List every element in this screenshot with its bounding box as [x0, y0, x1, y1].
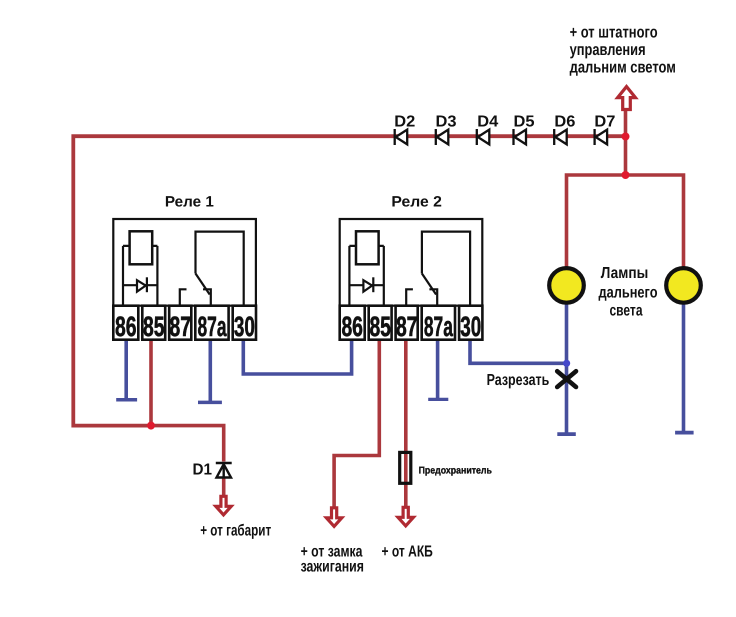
wire: blue relay1 pin 86 to ground [124, 340, 128, 399]
wire: blue relay1 pin 87a to ground [209, 340, 213, 402]
wire: blue right lamp to ground [682, 304, 686, 431]
wire: red branch to D1 [151, 426, 224, 462]
relay K1 [113, 219, 256, 340]
svg-text:+ от штатного: + от штатного [570, 24, 658, 42]
fuse F1 [400, 452, 411, 483]
wire: red from relay1 pin 85 down to junction [149, 340, 153, 426]
arrow down battery [398, 507, 413, 526]
svg-text:85: 85 [143, 311, 165, 342]
svg-text:86: 86 [115, 311, 137, 342]
svg-text:Реле 1: Реле 1 [165, 193, 214, 210]
wire: red riser to stock control arrow [624, 110, 628, 175]
diode D5 [514, 129, 527, 145]
wire: red from relay2 pin 85 to ignition arrow [334, 340, 379, 507]
node: red junction lamp feed [622, 171, 630, 179]
svg-text:87: 87 [170, 311, 192, 342]
svg-text:D6: D6 [554, 113, 575, 130]
ground bar relay1 pin87a [198, 401, 222, 405]
svg-text:87: 87 [396, 311, 418, 342]
lamp left [549, 268, 584, 303]
svg-text:Предохранитель: Предохранитель [419, 465, 492, 476]
diode D7 [595, 129, 608, 145]
svg-text:30: 30 [234, 311, 255, 342]
svg-text:D5: D5 [514, 113, 535, 130]
svg-text:управления: управления [570, 41, 646, 59]
arrow down ignition [326, 508, 341, 527]
ground bar left lamp [557, 432, 576, 436]
diode D4 [477, 129, 490, 145]
pin labels relay1 [115, 311, 481, 342]
svg-text:Реле 2: Реле 2 [391, 193, 442, 210]
wire: blue left lamp to ground through cut point [565, 304, 569, 433]
diode D2 [395, 129, 408, 145]
wire: blue relay2 pin30 to cut point [470, 340, 567, 364]
svg-text:D4: D4 [477, 113, 498, 130]
relay K2 [340, 219, 483, 340]
svg-text:зажигания: зажигания [301, 559, 364, 576]
svg-text:D3: D3 [436, 113, 457, 130]
diode D1 [216, 463, 232, 479]
arrow up stock control [618, 87, 636, 110]
svg-text:87a: 87a [424, 311, 453, 342]
svg-text:Разрезать: Разрезать [487, 372, 550, 389]
node: red junction at diode chain / arrow riser [622, 133, 630, 141]
ground bar relay2 pin87a [428, 398, 448, 401]
wire: red below D1 to arrow [222, 477, 226, 497]
node: red junction relay1 pin85 [147, 422, 155, 430]
svg-text:дальнего: дальнего [599, 285, 658, 302]
node: blue junction cut point [563, 360, 570, 367]
lamp right [666, 268, 701, 303]
wire: main red loop from relay1 pin85 junction left-up-right to diode chain [73, 136, 625, 425]
arrow down D1 side light [216, 496, 231, 515]
svg-text:+ от габарит: + от габарит [200, 523, 271, 540]
svg-text:D7: D7 [594, 113, 615, 130]
wire: red lamp feed horizontal [567, 175, 684, 267]
svg-text:дальним светом: дальним светом [570, 59, 676, 77]
ground bar right lamp [675, 431, 694, 435]
wire: blue relay2 pin 87a to ground [436, 340, 440, 399]
diode D6 [554, 129, 567, 145]
svg-text:света: света [610, 303, 643, 320]
svg-text:30: 30 [460, 311, 481, 342]
svg-text:87a: 87a [198, 311, 227, 342]
svg-text:D2: D2 [394, 113, 415, 130]
svg-text:Лампы: Лампы [601, 265, 649, 282]
svg-text:85: 85 [369, 311, 391, 342]
svg-text:D1: D1 [193, 462, 213, 479]
wire: red from relay2 pin 87 through fuse to battery arrow [404, 340, 408, 507]
ground bar relay1 pin86 [116, 398, 137, 402]
cut mark X [557, 371, 576, 387]
svg-text:86: 86 [341, 311, 363, 342]
diode D3 [436, 129, 449, 145]
svg-text:+ от АКБ: + от АКБ [382, 543, 433, 560]
wire: blue relay1 pin30 to relay2 pin86 [243, 340, 351, 374]
